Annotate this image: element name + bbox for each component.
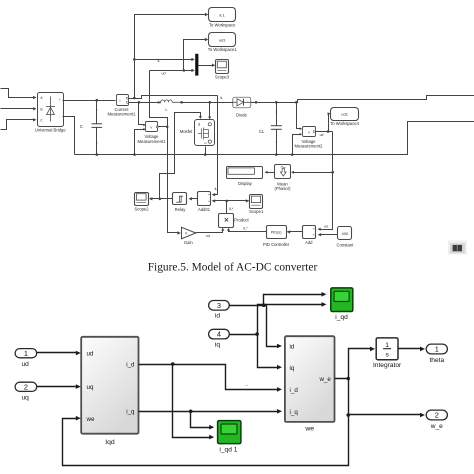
svg-text:Diode: Diode <box>236 112 248 117</box>
diode D on DC bus <box>233 97 251 108</box>
svg-text:uq: uq <box>87 384 94 391</box>
wire: VM2 + input from bus <box>297 103 301 129</box>
wire: VM2 output ud node <box>316 131 333 133</box>
watermark blob bottom-right of top diagram <box>448 241 467 255</box>
scope block: i_qd 1 (green) <box>218 421 241 444</box>
block: Add <box>303 226 316 239</box>
svg-text:ud: ud <box>324 224 328 228</box>
junction: iL signal tap going up to To Workspace / Mux <box>133 97 136 100</box>
svg-text:g: g <box>198 122 200 126</box>
junction: i_d tap to scope i_qd 1 <box>171 362 175 366</box>
wire: ud down to Mean and Add <box>319 132 333 230</box>
wire: ud signal to Mux input 2 <box>150 70 193 72</box>
wire: phase C input from left edge into Universal Bridge input C <box>1 120 35 130</box>
wire: iL* reference from Product into Add01 input 2 and Scope1 <box>213 200 249 202</box>
block: Add01 <box>198 192 211 206</box>
junction: ud tap to Mean (Phasor) <box>331 171 334 174</box>
wire: ud routed from VM1 output junction up to mux wire <box>150 71 168 127</box>
block: Current Measurement1 <box>117 95 129 106</box>
wire: Constant into Add input 2 <box>319 234 338 236</box>
svg-text:1: 1 <box>435 345 439 354</box>
svg-text:Relay: Relay <box>175 207 187 212</box>
input port 1 (ud) <box>15 349 37 358</box>
svg-text:Display: Display <box>238 181 253 186</box>
svg-text:2: 2 <box>24 382 28 391</box>
svg-text:PID Controller: PID Controller <box>263 242 290 247</box>
svg-text:w_e: w_e <box>430 423 443 430</box>
svg-text:iq: iq <box>215 341 220 348</box>
scope block: Scope2 <box>135 193 149 206</box>
junction: w_e node at vertical <box>346 377 350 381</box>
svg-text:w_e: w_e <box>318 376 331 383</box>
junction: VM2 - on rail <box>291 153 294 156</box>
wire: Relay output into Scope2 <box>150 198 173 200</box>
svg-text:Measurement1: Measurement1 <box>138 139 167 144</box>
wire: we output w_e to Integrator <box>335 349 372 379</box>
wire: Iqd i_d output across to we block i_d input <box>139 365 279 390</box>
svg-text:ud: ud <box>87 350 94 357</box>
svg-text:Add: Add <box>305 240 313 245</box>
rectifier block: Universal Bridge <box>38 93 64 127</box>
junction: product output node <box>225 200 228 203</box>
wire: Mosfet source to negative rail <box>205 147 207 155</box>
svg-text:i_qd 1: i_qd 1 <box>219 447 237 454</box>
svg-text:ud1: ud1 <box>219 38 226 43</box>
svg-text:Scope2: Scope2 <box>134 207 149 212</box>
wire: phase B input from left edge into Universal Bridge input B <box>1 108 35 110</box>
junction: Mosfet drain tap on bus <box>209 101 212 104</box>
svg-text:v: v <box>308 131 310 135</box>
svg-text:iq: iq <box>290 365 295 372</box>
wire: port 4 to junction <box>230 334 258 336</box>
capacitor C branch vertical wire upper <box>96 101 98 124</box>
gain block: Gain (triangle) <box>182 227 196 238</box>
svg-text:ud: ud <box>22 361 30 368</box>
capacitor CL branch upper wire <box>276 103 278 126</box>
wire: port 1 to Iqd input ud <box>37 352 78 354</box>
wire: VM1 + input from bus <box>139 103 145 125</box>
svg-text:i_d: i_d <box>126 362 135 369</box>
wire: VM2 - input from rail <box>293 135 301 155</box>
wire: port 3 to junction <box>230 305 267 307</box>
wire: Mean output into Display <box>266 172 275 174</box>
wire: Mosfet drain from bus <box>209 103 211 119</box>
wire: negative rail to right edge <box>75 122 474 155</box>
wire: iL to Mux input 1 <box>135 59 193 61</box>
svg-text:Add01: Add01 <box>198 207 211 212</box>
wire: ud up into To Workspace4 <box>329 114 330 132</box>
svg-text:To Workspace4: To Workspace4 <box>330 121 359 126</box>
mux block (black bar) <box>195 54 198 76</box>
svg-text:iL: iL <box>220 96 223 100</box>
input port 3 (id) <box>209 301 230 311</box>
scope block: Scope1 <box>250 195 263 209</box>
svg-text:Measurement2: Measurement2 <box>295 144 324 149</box>
wire: Iqd i_q output across to we block i_q input <box>139 411 279 413</box>
capacitor CL plates <box>271 125 282 127</box>
svg-text:+: + <box>59 98 61 102</box>
wire: Add01 output into Relay <box>190 198 198 200</box>
svg-text:iL: iL <box>158 59 161 63</box>
block: To Workspace (iL1) <box>209 8 236 22</box>
svg-text:we: we <box>304 426 314 433</box>
wire: w_e to output port 2 <box>349 414 422 416</box>
wire: Gain output up into Product input 1 <box>196 229 223 233</box>
block: Integrator (1/s) <box>376 338 398 360</box>
subsystem block: we <box>285 336 335 422</box>
wire: ud branch up into To Workspace1 <box>184 40 207 71</box>
wire: i_d branch down to scope i_qd 1 lower input <box>173 365 211 438</box>
svg-text:Scope3: Scope3 <box>215 74 230 79</box>
arrow: iL feedback into Add01 input 1 <box>212 193 215 196</box>
svg-text:iL*: iL* <box>243 226 248 230</box>
block: Product <box>219 214 234 228</box>
svg-text:iL*: iL* <box>229 207 234 211</box>
svg-text:To Workspace: To Workspace <box>209 23 236 28</box>
block: Display <box>227 167 263 179</box>
wire: VM1 output ud to Gain input <box>158 127 179 233</box>
block: Constant (400) <box>338 227 352 240</box>
svg-text:PID(s): PID(s) <box>271 231 282 235</box>
junction: Mosfet source on rail <box>204 153 207 156</box>
junction: capacitor CL on rail <box>275 153 278 156</box>
block: To Workspace1 (ud1) <box>209 33 236 47</box>
junction: VM1 + tap on bus <box>138 101 141 104</box>
scope block: i_qd (green) <box>331 288 353 312</box>
junction: i_q tap to scope i_qd 1 <box>189 410 193 414</box>
junction: w_e tap to output port 2 <box>346 413 350 417</box>
wire: Integrator to output port 1 theta <box>399 348 422 350</box>
svg-text:2: 2 <box>435 411 439 420</box>
svg-text:C: C <box>80 124 83 129</box>
svg-text:Iqd: Iqd <box>105 439 115 446</box>
output port 2 (w_e) <box>426 410 447 420</box>
wire: Universal Bridge - output down to negative rail <box>63 117 75 155</box>
svg-text:i_d: i_d <box>290 387 299 394</box>
junction: Voltage Measurement2 + tap on bus <box>295 101 298 104</box>
wire: VM1 - input from rail <box>135 130 145 155</box>
block: Relay <box>173 193 187 205</box>
wire: DC+ bus from Current Measurement1 lower port to inductor <box>129 102 161 104</box>
subsystem block: Iqd <box>81 337 138 434</box>
wire: i_q branch down to scope i_qd 1 upper input <box>191 412 211 428</box>
junction: iL tap to Mux input 1 <box>133 58 136 61</box>
wire: id up-branch to scope i_qd upper input <box>264 295 324 306</box>
wire: product output up to node <box>226 201 228 214</box>
svg-text:(Phasor): (Phasor) <box>274 186 291 191</box>
input port 4 (iq) <box>209 329 230 339</box>
wire: id down-branch to we block id input <box>267 306 279 347</box>
junction: ud branch to To Workspace4 <box>327 130 330 133</box>
svg-text:Universal Bridge: Universal Bridge <box>35 128 66 133</box>
block: PID Controller <box>267 226 287 239</box>
wire: iL feedback descends at right and enters Add01 input 1 <box>213 96 218 195</box>
svg-text:Measurement1: Measurement1 <box>108 112 137 117</box>
svg-text:4: 4 <box>217 330 221 339</box>
svg-text:ud: ud <box>162 72 166 76</box>
svg-text:i_q: i_q <box>126 409 135 416</box>
svg-text:iL1: iL1 <box>220 13 226 18</box>
svg-text:CL: CL <box>259 129 265 134</box>
svg-text:Constant: Constant <box>337 243 355 248</box>
wire: Mux output to Scope3 <box>199 65 213 67</box>
svg-text:we: we <box>86 416 95 423</box>
wire: ud into Mean (Phasor) input <box>293 172 333 174</box>
junction: after inductor <box>180 101 183 104</box>
svg-text:ud: ud <box>320 133 324 137</box>
svg-text:1: 1 <box>385 342 389 349</box>
svg-text:ud: ud <box>206 234 210 238</box>
wire: iq down-branch to we block iq input <box>258 335 279 368</box>
svg-text:v: v <box>150 126 152 130</box>
inductor L on DC bus <box>157 101 159 104</box>
junction: capacitor C on rail <box>96 153 99 156</box>
svg-text:theta: theta <box>429 357 444 364</box>
block: To Workspace4 (ud1) <box>331 108 359 121</box>
capacitor CL branch lower wire <box>276 130 278 155</box>
junction: id tap up to scope i_qd <box>262 303 266 307</box>
wire: port 2 to Iqd input uq <box>37 386 78 388</box>
output port 1 (theta) <box>426 344 447 354</box>
wire: bus from inductor to Diode <box>182 102 233 104</box>
wire: bus from Diode cathode to right edge <box>251 96 474 103</box>
junction: ud tap to To Workspace1 <box>183 69 186 72</box>
wire: gate drive from relay node up and over to Mosfet gate <box>160 113 201 199</box>
svg-text:id: id <box>215 313 220 320</box>
svg-text:To Workspace1: To Workspace1 <box>208 47 237 52</box>
junction: capacitor CL tap on bus <box>275 101 278 104</box>
svg-text:Product: Product <box>234 218 249 223</box>
wire: w_e feedback loop to Iqd we input <box>63 415 349 466</box>
svg-text:Figure.5. Model of AC-DC conve: Figure.5. Model of AC-DC converter <box>148 262 318 274</box>
wire: phase A input from left edge into Universal Bridge input A <box>1 89 35 98</box>
junction: capacitor C tap on DC+ wire <box>96 99 99 102</box>
svg-text:400: 400 <box>342 231 349 236</box>
wire: iL signal up the left side to To Workspace block iL1 <box>135 15 207 99</box>
wire: DC+ from Universal Bridge + output to Current Measurement1 <box>63 100 116 102</box>
transistor block: Mosfet <box>195 120 215 146</box>
scope block: Scope3 <box>216 60 229 74</box>
junction: gate feedback tap on relay output wire <box>159 198 162 201</box>
junction: VM1 - on rail <box>133 153 136 156</box>
svg-text:ud1: ud1 <box>341 112 348 117</box>
svg-text:Integrator: Integrator <box>373 362 402 369</box>
block: Voltage Measurement1 <box>146 122 158 132</box>
svg-text:id: id <box>290 344 295 351</box>
svg-text:iL: iL <box>215 187 218 191</box>
svg-text:Scope1: Scope1 <box>249 209 264 214</box>
block: Voltage Measurement2 <box>303 127 316 137</box>
wire: PID output up into Product input 2 <box>229 229 267 232</box>
wire: Current Measurement1 iL signal output, runs above the bus to the right <box>129 96 218 99</box>
junction: VM1 output node <box>166 126 169 129</box>
svg-text:3: 3 <box>217 301 221 310</box>
svg-text:→: → <box>244 382 249 387</box>
block: Mean (Phasor) <box>275 165 291 179</box>
svg-text:1: 1 <box>24 349 28 358</box>
junction: after diode <box>255 101 258 104</box>
capacitor C branch vertical wire lower <box>96 128 98 155</box>
input port 2 (uq) <box>15 382 37 391</box>
wire: iq up-branch to scope i_qd lower input <box>258 305 324 335</box>
svg-text:i_qd: i_qd <box>335 314 348 321</box>
svg-text:Mosfet: Mosfet <box>180 129 193 134</box>
junction: iq tap <box>255 332 259 336</box>
svg-text:i_q: i_q <box>290 409 299 416</box>
svg-text:uq: uq <box>22 395 30 402</box>
capacitor C plates <box>92 123 103 125</box>
wire: w_e vertical down to output port branch <box>348 379 350 415</box>
wire: Add output into PID Controller <box>288 231 303 233</box>
svg-text:Gain: Gain <box>184 240 194 245</box>
